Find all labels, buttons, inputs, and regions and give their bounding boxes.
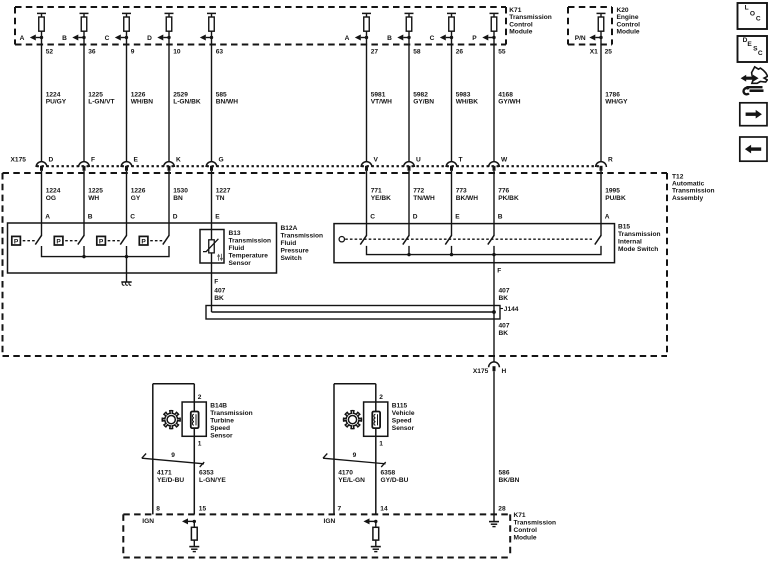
svg-text:1530: 1530 — [173, 188, 188, 195]
resistor in module at pin 55 — [490, 13, 499, 31]
svg-text:YE/D-BU: YE/D-BU — [157, 477, 184, 484]
wire label 585 BN/WH — [216, 91, 239, 105]
pressure switch contact A (B12A) — [12, 235, 42, 245]
svg-text:V: V — [374, 156, 379, 163]
svg-text:C: C — [756, 16, 761, 23]
svg-text:9: 9 — [171, 452, 175, 459]
svg-text:E: E — [747, 41, 752, 48]
label B15 Transmission Internal Mode Switch — [618, 224, 661, 254]
wire label 407 BK (right upper) — [499, 288, 510, 303]
mode switch contact B (B15) — [488, 235, 494, 244]
svg-text:WH: WH — [88, 195, 99, 202]
connector X175 pin U — [404, 156, 421, 171]
svg-text:E: E — [215, 214, 220, 221]
arrow B (module internal) — [62, 35, 86, 43]
svg-text:D: D — [147, 35, 152, 42]
connector X175 pin V — [361, 156, 378, 171]
svg-text:1: 1 — [198, 441, 202, 448]
svg-text:B115: B115 — [392, 403, 408, 410]
connector X175 pin H — [473, 362, 507, 375]
svg-text:5982: 5982 — [413, 91, 428, 98]
svg-text:407: 407 — [499, 288, 510, 295]
ground (B12A case) — [121, 282, 131, 285]
wire label 5982 GY/BN — [413, 91, 434, 105]
pressure switch contact B (B12A) — [54, 235, 84, 245]
svg-text:L-GN/YE: L-GN/YE — [199, 477, 226, 484]
svg-text:Switch: Switch — [281, 255, 302, 262]
svg-text:585: 585 — [216, 91, 227, 98]
K71 Transmission Control Module (bottom dashed box) — [123, 514, 510, 557]
svg-text:Temperature: Temperature — [229, 253, 269, 260]
wire label 6353 L-GN/YE — [199, 470, 226, 485]
wire from pin 9 to connector X175 E — [126, 31, 128, 161]
svg-text:L: L — [745, 5, 749, 12]
svg-text:9: 9 — [131, 49, 135, 56]
wire label 776 PK/BK — [498, 188, 519, 202]
resistor at pin 14 (K71 internal) — [373, 521, 379, 546]
wire B15 pin F to X175 H (407 BK) — [492, 246, 495, 362]
svg-text:BK/WH: BK/WH — [456, 195, 479, 202]
wire label 1224 PU/GY — [46, 91, 67, 105]
T12 Automatic Transmission Assembly (dashed box) — [3, 173, 668, 356]
svg-text:C: C — [130, 214, 135, 221]
arrow C (module internal) — [430, 35, 454, 43]
svg-text:1224: 1224 — [46, 91, 61, 98]
svg-text:YE/L-GN: YE/L-GN — [338, 477, 365, 484]
pressure switch contact C (B12A) — [97, 235, 127, 245]
svg-text:GY/BN: GY/BN — [413, 99, 434, 106]
svg-text:1786: 1786 — [605, 91, 620, 98]
svg-text:O: O — [750, 11, 755, 18]
svg-text:4170: 4170 — [338, 470, 353, 477]
sidebar icon next (right arrow button) — [740, 103, 767, 126]
ground at pin 14 resistor — [371, 547, 381, 552]
svg-text:2: 2 — [198, 394, 202, 401]
twisted pair symbol (9) — [142, 452, 204, 467]
svg-text:Assembly: Assembly — [672, 195, 703, 202]
svg-text:Transmission: Transmission — [672, 188, 715, 195]
connector X175 pin W — [489, 156, 508, 171]
svg-text:407: 407 — [214, 288, 225, 295]
temperature arrows (B13 detail) — [218, 254, 223, 261]
sidebar icon DESC (button) — [738, 36, 768, 62]
wire label 5981 VT/WH — [371, 91, 392, 105]
svg-text:Module: Module — [514, 534, 537, 541]
svg-text:B: B — [88, 214, 93, 221]
wire label 771 YE/BK — [371, 188, 391, 202]
sensor B115 Vehicle Speed Sensor loop wire (pin 2 jumper) — [334, 384, 376, 515]
wire 1995 PU/BK inside T12 — [600, 171, 602, 236]
svg-text:1: 1 — [379, 441, 383, 448]
svg-text:15: 15 — [199, 506, 207, 513]
svg-text:Internal: Internal — [618, 239, 642, 246]
K20 Engine Control Module (dashed box) — [568, 7, 612, 45]
svg-text:X1: X1 — [590, 49, 598, 56]
svg-text:6353: 6353 — [199, 470, 214, 477]
bus wire inside B12A (contacts A-D common) — [42, 246, 170, 258]
wire from pin 52 to connector X175 D — [41, 31, 43, 161]
connector X175 pin D — [36, 156, 53, 171]
label B12A Transmission Fluid Pressure Switch — [281, 225, 324, 262]
svg-text:5983: 5983 — [456, 91, 471, 98]
wire label 1226 GY — [131, 188, 146, 202]
connector X175 pin T — [446, 156, 462, 171]
resistor at pin 15 (K71 internal) — [191, 521, 197, 546]
svg-text:E: E — [134, 156, 139, 163]
resistor in module at pin 9 — [122, 13, 131, 31]
resistor in module at pin 63 — [207, 13, 216, 31]
ground at pin 15 resistor — [189, 547, 199, 552]
svg-text:28: 28 — [498, 506, 506, 513]
svg-text:Vehicle: Vehicle — [392, 410, 415, 417]
label K71 Transmission Control Module (bottom) — [514, 512, 557, 541]
svg-text:Fluid: Fluid — [229, 245, 245, 252]
svg-text:Transmission: Transmission — [210, 410, 253, 417]
resistor in module at pin 25 — [597, 13, 606, 31]
svg-text:GY/WH: GY/WH — [498, 99, 521, 106]
svg-text:586: 586 — [499, 470, 510, 477]
bus wire inside B15 — [367, 246, 602, 256]
svg-text:Module: Module — [509, 29, 532, 36]
svg-text:D: D — [413, 214, 418, 221]
svg-text:1226: 1226 — [131, 188, 146, 195]
svg-text:P: P — [14, 238, 19, 245]
wire label 5983 WH/BK — [456, 91, 479, 105]
twisted pair symbol (9) — [323, 452, 386, 467]
svg-text:Transmission: Transmission — [229, 238, 272, 245]
svg-text:8: 8 — [156, 506, 160, 513]
svg-text:PU/BK: PU/BK — [605, 195, 626, 202]
svg-text:Sensor: Sensor — [229, 260, 252, 267]
wire label 773 BK/WH — [456, 188, 479, 202]
arrow C (module internal) — [105, 35, 129, 43]
svg-text:X175: X175 — [11, 156, 27, 163]
svg-text:14: 14 — [380, 506, 388, 513]
label K71 Transmission Control Module (top) — [509, 7, 552, 35]
svg-text:TN/WH: TN/WH — [413, 195, 435, 202]
mode switch actuator dashed link (B15) — [345, 238, 592, 240]
svg-text:Control: Control — [514, 527, 538, 534]
svg-text:PU/GY: PU/GY — [46, 99, 67, 106]
svg-text:WH/BN: WH/BN — [131, 99, 154, 106]
svg-text:T: T — [459, 156, 463, 163]
resistor in module at pin 52 — [37, 13, 46, 31]
arrow B (module internal) — [387, 35, 411, 43]
svg-text:K20: K20 — [617, 7, 629, 14]
wire B13 pin F to splice J144 (407 BK) — [211, 253, 213, 312]
wire label 4168 GY/WH — [498, 91, 521, 105]
pressure switch contact D (B12A) — [139, 235, 169, 245]
wire 1226 GY inside T12 — [126, 171, 128, 236]
svg-text:H: H — [502, 368, 507, 375]
svg-text:K: K — [176, 156, 181, 163]
svg-text:A: A — [345, 35, 350, 42]
svg-text:36: 36 — [88, 49, 96, 56]
pin number 25 — [590, 49, 613, 56]
connector X175 pin K — [164, 156, 181, 171]
wire label 1530 BN — [173, 188, 188, 202]
label K20 Engine Control Module — [617, 7, 641, 35]
mode switch actuator circle (B15) — [339, 237, 344, 242]
svg-text:BK/BN: BK/BN — [499, 477, 520, 484]
splice wire inside J144 — [212, 310, 496, 314]
X175 harness connector dotted line — [37, 165, 602, 167]
temperature sensor B13 (box) — [200, 230, 224, 264]
sidebar icon back (left arrow button) — [740, 137, 767, 161]
svg-text:B15: B15 — [618, 224, 630, 231]
resistor in module at pin 26 — [447, 13, 456, 31]
wire 771 YE/BK inside T12 — [366, 171, 368, 236]
arrow branch at pin 15 (K71 internal) — [182, 518, 196, 524]
svg-text:WH/GY: WH/GY — [605, 99, 628, 106]
svg-text:R: R — [608, 156, 613, 163]
svg-text:772: 772 — [413, 188, 424, 195]
svg-text:2: 2 — [379, 394, 383, 401]
svg-text:1225: 1225 — [88, 188, 103, 195]
svg-text:Sensor: Sensor — [392, 425, 415, 432]
svg-text:1995: 1995 — [605, 188, 620, 195]
resistor in module at pin 58 — [405, 13, 414, 31]
wire label 586 BK/BN — [499, 470, 520, 485]
label J144 — [500, 306, 519, 313]
arrow P (module internal) — [472, 35, 495, 43]
label B14B Transmission Turbine Speed Sensor — [210, 403, 253, 440]
svg-text:BK: BK — [499, 330, 509, 337]
svg-text:B12A: B12A — [281, 225, 298, 232]
svg-text:10: 10 — [173, 49, 181, 56]
svg-text:K71: K71 — [509, 7, 521, 14]
wire 586 BK/BN from X175 H to K71 pin 28 — [493, 371, 495, 521]
svg-text:55: 55 — [498, 49, 506, 56]
thermistor symbol (B13) — [203, 239, 218, 253]
svg-text:27: 27 — [371, 49, 379, 56]
svg-text:D: D — [49, 156, 54, 163]
svg-text:PK/BK: PK/BK — [498, 195, 519, 202]
gear icon (B14B Transmission Turbine Speed Sensor) — [162, 411, 180, 429]
arrow branch at pin 14 (K71 internal) — [364, 518, 378, 524]
wire label 407 BK (below J144) — [499, 322, 510, 337]
wire 1225 WH inside T12 — [83, 171, 85, 236]
svg-text:L-GN/BK: L-GN/BK — [173, 99, 201, 106]
svg-text:GY/D-BU: GY/D-BU — [381, 477, 409, 484]
svg-text:63: 63 — [216, 49, 224, 56]
wire 776 PK/BK inside T12 — [493, 171, 495, 236]
svg-text:2529: 2529 — [173, 91, 188, 98]
gear icon (B115 Vehicle Speed Sensor) — [343, 411, 361, 429]
svg-text:5981: 5981 — [371, 91, 386, 98]
svg-text:C: C — [758, 50, 763, 57]
svg-text:J144: J144 — [504, 306, 519, 313]
svg-text:B14B: B14B — [210, 403, 227, 410]
svg-text:Control: Control — [509, 21, 533, 28]
svg-text:P: P — [141, 238, 146, 245]
wire label 772 TN/WH — [413, 188, 435, 202]
svg-text:TN: TN — [216, 195, 225, 202]
wire label 4170 YE/L-GN — [338, 470, 365, 485]
svg-text:1227: 1227 — [216, 188, 231, 195]
svg-text:Fluid: Fluid — [281, 240, 297, 247]
svg-text:YE/BK: YE/BK — [371, 195, 391, 202]
wire label 1225 L-GN/VT — [88, 91, 114, 105]
sensor B14B Transmission Turbine Speed Sensor loop wire (pin 2 jumper) — [153, 384, 195, 515]
svg-text:Transmission: Transmission — [514, 520, 557, 527]
label B115 Vehicle Speed Sensor — [392, 403, 415, 432]
arrow P/N (K20 internal) — [575, 35, 603, 43]
svg-text:1226: 1226 — [131, 91, 146, 98]
mode switch contact E (B15) — [445, 235, 451, 244]
wire 1530 BN inside T12 — [168, 171, 170, 236]
resistor in module at pin 36 — [80, 13, 89, 31]
wire label 2529 L-GN/BK — [173, 91, 201, 105]
sensor B14B Transmission Turbine Speed Sensor (box) — [182, 402, 206, 436]
wire from pin 25 to connector X175 R — [600, 31, 602, 161]
sidebar icon hand/wrench with double arrow — [741, 67, 768, 94]
svg-text:Mode Switch: Mode Switch — [618, 246, 658, 253]
svg-text:X175: X175 — [473, 368, 489, 375]
svg-text:1224: 1224 — [46, 188, 61, 195]
svg-text:Transmission: Transmission — [281, 233, 324, 240]
splice pack J144 (box) — [206, 306, 500, 320]
svg-text:BN/WH: BN/WH — [216, 99, 239, 106]
svg-text:P: P — [472, 35, 477, 42]
svg-text:Module: Module — [617, 29, 640, 36]
wire from pin 63 to connector X175 G — [211, 31, 213, 161]
label T12 Automatic Transmission Assembly — [672, 173, 715, 202]
pickup element (B115 Vehicle Speed Sensor) — [372, 412, 380, 429]
wire from pin 55 to connector X175 W — [493, 31, 495, 161]
svg-text:B: B — [387, 35, 392, 42]
connector X175 pin G — [206, 156, 224, 171]
svg-text:52: 52 — [46, 49, 54, 56]
svg-text:9: 9 — [353, 452, 357, 459]
svg-text:407: 407 — [499, 322, 510, 329]
ground at K71 pin 28 — [489, 522, 499, 527]
wire 1227 TN inside T12 — [211, 171, 213, 240]
wire 772 TN/WH inside T12 — [408, 171, 410, 236]
wire label 1224 OG — [46, 188, 61, 202]
svg-text:WH/BK: WH/BK — [456, 99, 479, 106]
svg-text:BN: BN — [173, 195, 183, 202]
svg-text:GY: GY — [131, 195, 141, 202]
svg-text:BK: BK — [499, 295, 509, 302]
wire label 1227 TN — [216, 188, 231, 202]
svg-text:BK: BK — [214, 295, 224, 302]
svg-text:W: W — [501, 156, 508, 163]
svg-text:A: A — [20, 35, 25, 42]
wire from B12A common to case ground — [126, 257, 128, 282]
wire label 1995 PU/BK — [605, 188, 626, 202]
svg-text:Engine: Engine — [617, 14, 639, 21]
svg-text:B: B — [62, 35, 67, 42]
svg-text:58: 58 — [413, 49, 421, 56]
pickup element (B14B Transmission Turbine Speed Sensor) — [191, 412, 199, 429]
svg-text:Automatic: Automatic — [672, 181, 705, 188]
arrow A (module internal) — [20, 35, 44, 43]
svg-text:25: 25 — [605, 49, 613, 56]
wire from pin 36 to connector X175 F — [83, 31, 85, 161]
svg-text:773: 773 — [456, 188, 467, 195]
svg-text:F: F — [214, 279, 218, 286]
resistor in module at pin 27 — [362, 13, 371, 31]
arrow (module internal, unlabelled) — [200, 35, 213, 41]
svg-text:F: F — [497, 268, 501, 275]
wire label 4171 YE/D-BU — [157, 470, 184, 485]
svg-text:K71: K71 — [514, 512, 526, 519]
arrow D (module internal) — [147, 35, 171, 43]
svg-text:E: E — [455, 214, 460, 221]
svg-text:D: D — [173, 214, 178, 221]
wire label 1225 WH — [88, 188, 103, 202]
wire from pin 26 to connector X175 T — [451, 31, 453, 161]
svg-text:VT/WH: VT/WH — [371, 99, 392, 106]
wire from pin 58 to connector X175 U — [408, 31, 410, 161]
svg-text:A: A — [605, 214, 610, 221]
resistor in module at pin 10 — [165, 13, 174, 31]
svg-text:26: 26 — [456, 49, 464, 56]
label B13 Transmission Fluid Temperature Sensor — [229, 230, 272, 267]
svg-text:4171: 4171 — [157, 470, 172, 477]
mode switch contact A (B15) — [595, 235, 601, 244]
wire from pin 10 to connector X175 K — [168, 31, 170, 161]
svg-text:IGN: IGN — [324, 518, 336, 525]
wire label 6358 GY/D-BU — [381, 470, 409, 485]
svg-text:4168: 4168 — [498, 91, 513, 98]
wire label 407 BK (left) — [214, 288, 225, 303]
connector X175 pin F — [79, 156, 95, 171]
svg-text:C: C — [105, 35, 110, 42]
svg-text:P: P — [56, 238, 61, 245]
svg-text:OG: OG — [46, 195, 56, 202]
wire 773 BK/WH inside T12 — [451, 171, 453, 236]
svg-text:Speed: Speed — [392, 417, 412, 424]
svg-text:F: F — [91, 156, 95, 163]
wire label 1226 WH/BN — [131, 91, 154, 105]
svg-text:A: A — [45, 214, 50, 221]
svg-text:U: U — [416, 156, 421, 163]
svg-text:776: 776 — [498, 188, 509, 195]
sidebar icon LOC (button) — [738, 3, 768, 29]
svg-text:7: 7 — [338, 506, 342, 513]
arrow A (module internal) — [345, 35, 369, 43]
wire label 1786 WH/GY — [605, 91, 628, 105]
svg-text:B13: B13 — [229, 230, 241, 237]
svg-text:771: 771 — [371, 188, 382, 195]
svg-text:IGN: IGN — [142, 518, 154, 525]
sensor B115 Vehicle Speed Sensor (box) — [364, 402, 388, 436]
svg-text:1225: 1225 — [88, 91, 103, 98]
connector X175 pin E — [121, 156, 138, 171]
svg-text:G: G — [219, 156, 224, 163]
B15 Transmission Internal Mode Switch (box) — [334, 224, 615, 263]
svg-text:Control: Control — [617, 21, 641, 28]
svg-text:P/N: P/N — [575, 35, 586, 42]
svg-text:L-GN/VT: L-GN/VT — [88, 99, 114, 106]
svg-text:T12: T12 — [672, 173, 684, 180]
svg-text:C: C — [370, 214, 375, 221]
svg-text:C: C — [430, 35, 435, 42]
svg-text:6358: 6358 — [381, 470, 396, 477]
svg-text:Turbine: Turbine — [210, 417, 234, 424]
K71 Transmission Control Module (top dashed box) — [15, 7, 506, 45]
svg-text:Pressure: Pressure — [281, 248, 310, 255]
svg-text:Speed: Speed — [210, 425, 230, 432]
svg-text:P: P — [99, 238, 104, 245]
connector X175 pin R — [596, 156, 613, 171]
svg-text:B: B — [498, 214, 503, 221]
mode switch contact D (B15) — [403, 235, 409, 244]
svg-text:Transmission: Transmission — [509, 14, 552, 21]
mode switch contact C (B15) — [360, 235, 366, 244]
